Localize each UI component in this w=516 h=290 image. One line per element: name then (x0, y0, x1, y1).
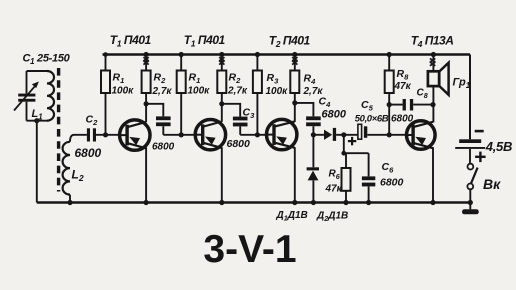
svg-text:С1​ 25-150: С1​ 25-150 (23, 53, 71, 67)
node T4 emitter at rail (430, 200, 435, 205)
resistor R4 2.7k (294, 55, 296, 71)
node T2 emitter at rail (219, 200, 224, 205)
wire bottom common rail (37, 201, 471, 204)
capacitor C4 6800 coupling T3-detector (295, 103, 314, 117)
capacitor C5 50uF electrolytic (358, 124, 362, 139)
node battery at rail (468, 200, 473, 205)
svg-text:6800: 6800 (391, 114, 414, 125)
node base 2 (179, 132, 184, 137)
svg-text:100к: 100к (112, 86, 135, 97)
wire top supply rail (103, 53, 471, 56)
svg-text:Т2​ П401: Т2​ П401 (269, 34, 311, 50)
node R1 top (103, 52, 108, 57)
coil L1 (47, 71, 54, 121)
resistor R1 100k (stage 2) (180, 55, 182, 71)
node T1 emitter at rail (144, 200, 149, 205)
node T4 base bias (387, 132, 392, 137)
transistor T2 P401 (195, 120, 225, 150)
wire T2 emitter to rail (221, 147, 223, 202)
node base 3 (255, 132, 260, 137)
resistor R2 2.7k (stage 1) (145, 55, 147, 71)
capacitor C1 variable 25-150 (26, 71, 28, 94)
wire detector output down (343, 135, 345, 153)
node R2 stage2 top (219, 52, 224, 57)
svg-text:2,7к: 2,7к (227, 86, 248, 97)
wire to T2 base (163, 134, 195, 136)
svg-text:Т1​ П401: Т1​ П401 (110, 33, 152, 49)
wire to T3 base (240, 134, 266, 136)
node R6 at rail (343, 200, 348, 205)
node detector output (341, 132, 346, 137)
node D2 at rail (311, 200, 316, 205)
resistor R3 100k (256, 55, 258, 71)
resistor R8 47k base bias (388, 55, 390, 71)
svg-text:Д2​Д1В: Д2​Д1В (316, 211, 348, 224)
resistor R6 47k load (345, 153, 347, 168)
svg-text:50,0×6В: 50,0×6В (355, 113, 389, 124)
wire tank down to common rail (36, 121, 38, 203)
wire tank top (27, 70, 48, 72)
svg-text:Д1​Д1В: Д1​Д1В (276, 210, 308, 223)
node collector 2 (219, 101, 224, 106)
wire C5 to T4 base (367, 134, 405, 136)
node collector 1 (144, 101, 149, 106)
wire T4 emitter to rail (432, 147, 434, 202)
wire T2 collector (221, 104, 223, 122)
node R8 top (387, 52, 392, 57)
wire T1 emitter to rail (145, 147, 147, 202)
svg-text:100к: 100к (266, 86, 289, 97)
node T3 emitter at rail (292, 200, 297, 205)
capacitor C2 6800 (87, 128, 90, 141)
node L2 to rail (67, 200, 72, 205)
node base 1 (103, 132, 108, 137)
node C6 at rail (366, 200, 371, 205)
transistor T3 P401 (267, 119, 297, 149)
node R4 top (292, 52, 297, 57)
node tank junction (34, 118, 39, 123)
wire C2 to T1 base (96, 134, 120, 136)
svg-text:2,7к: 2,7к (152, 86, 173, 97)
transistor T4 P13A (407, 121, 436, 150)
ground (469, 203, 471, 210)
svg-text:6800: 6800 (75, 146, 102, 160)
svg-text:47к: 47к (325, 184, 343, 195)
diode D2 D1V (shunt) (312, 135, 314, 168)
svg-text:6800: 6800 (227, 138, 251, 150)
battery 4.5V (475, 130, 484, 133)
capacitor C8 6800 feedback (387, 102, 392, 107)
svg-text:Т4​ П13А: Т4​ П13А (411, 33, 454, 49)
wire battery to switch (469, 149, 471, 164)
svg-text:100к: 100к (188, 86, 211, 97)
wire tank bottom (27, 120, 49, 122)
wire right supply drop to battery (469, 55, 471, 140)
resistor R2 2.7k (stage 2) (221, 55, 223, 71)
svg-text:Т1​ П401: Т1​ П401 (184, 33, 226, 49)
switch Vk (468, 164, 474, 170)
diode D1 D1V (series) (313, 134, 324, 136)
svg-text:3-V-1: 3-V-1 (203, 228, 296, 271)
node R2 top (144, 52, 149, 57)
wire speaker to T4 collector (432, 87, 434, 123)
node detector input (311, 132, 316, 137)
svg-text:6800: 6800 (380, 177, 404, 189)
svg-text:47к: 47к (394, 81, 412, 92)
svg-text:6800: 6800 (322, 109, 347, 121)
wire T3 collector (294, 103, 296, 122)
svg-text:6800: 6800 (152, 142, 175, 153)
capacitor C6 6800 filter (368, 153, 370, 176)
node R1 stage2 top (179, 52, 184, 57)
node R3 top (255, 52, 260, 57)
wire switch to rail (469, 189, 471, 202)
loudspeaker Gr1 (431, 52, 436, 57)
wire T3 emitter to rail (294, 147, 296, 202)
capacitor C3 6800 coupling T2-T3 (222, 104, 240, 117)
transistor T1 P401 (120, 120, 150, 150)
svg-text:Вк: Вк (483, 176, 501, 192)
node collector 3 (292, 100, 297, 105)
ferrite core dashed line (57, 68, 60, 192)
svg-text:4,5В: 4,5В (485, 139, 512, 154)
resistor R1 100k (stage 1) (105, 55, 107, 71)
wire T1 collector (145, 104, 147, 122)
coil L2 (70, 135, 87, 142)
capacitor 6800 coupling T1-T2 (146, 104, 163, 117)
